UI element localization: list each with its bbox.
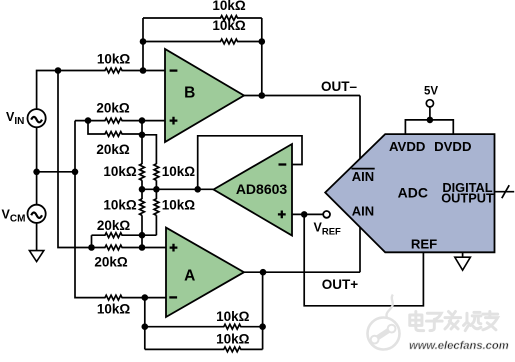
svg-text:AIN: AIN xyxy=(352,203,374,218)
svg-text:AD8603: AD8603 xyxy=(236,181,288,197)
svg-text:OUT–: OUT– xyxy=(321,79,357,94)
svg-text:ADC: ADC xyxy=(398,185,428,201)
svg-text:5V: 5V xyxy=(424,86,438,98)
svg-text:10kΩ: 10kΩ xyxy=(97,52,131,67)
svg-text:DVDD: DVDD xyxy=(434,139,471,154)
svg-text:10kΩ: 10kΩ xyxy=(162,198,196,213)
svg-text:20kΩ: 20kΩ xyxy=(97,218,131,233)
svg-text:20kΩ: 20kΩ xyxy=(96,100,130,115)
svg-text:10kΩ: 10kΩ xyxy=(216,309,250,324)
svg-text:AVDD: AVDD xyxy=(389,139,425,154)
svg-text:10kΩ: 10kΩ xyxy=(103,198,137,213)
svg-text:www.elecfans.com: www.elecfans.com xyxy=(409,340,509,352)
svg-text:B: B xyxy=(184,85,195,102)
svg-text:10kΩ: 10kΩ xyxy=(162,164,196,179)
svg-text:10kΩ: 10kΩ xyxy=(216,332,250,347)
svg-text:A: A xyxy=(184,267,195,284)
svg-text:OUT+: OUT+ xyxy=(322,277,358,292)
svg-text:OUTPUT: OUTPUT xyxy=(441,190,494,205)
svg-text:AIN: AIN xyxy=(352,169,374,184)
svg-text:10kΩ: 10kΩ xyxy=(97,301,131,316)
svg-text:10kΩ: 10kΩ xyxy=(103,164,137,179)
svg-text:REF: REF xyxy=(411,237,437,252)
svg-text:10kΩ: 10kΩ xyxy=(212,18,246,33)
svg-text:20kΩ: 20kΩ xyxy=(94,254,128,269)
svg-text:10kΩ: 10kΩ xyxy=(212,0,246,13)
svg-text:20kΩ: 20kΩ xyxy=(96,142,130,157)
